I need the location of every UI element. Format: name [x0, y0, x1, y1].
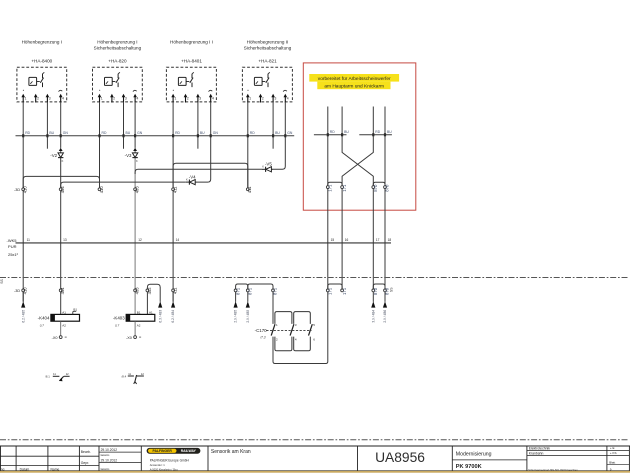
junction node wire 411 at terminal row -3D	[246, 186, 252, 193]
svg-text:K: K	[136, 159, 138, 163]
svg-text:B1: B1	[137, 310, 141, 314]
svg-text:4: 4	[62, 97, 64, 101]
svg-text:-K404: -K404	[38, 315, 50, 320]
junction node wire 410 lower row	[22, 287, 28, 295]
twisted pair marker nets 171 (lower)	[326, 284, 346, 295]
svg-text:-X0: -X0	[52, 336, 58, 340]
svg-text:A2: A2	[62, 324, 66, 328]
terminal pin 2 of +HA-8401	[184, 94, 189, 103]
pin A2 of -K404 and terminal -X0	[52, 321, 67, 340]
company address	[150, 458, 190, 471]
svg-text:/8.4: /8.4	[122, 374, 127, 378]
svg-text:A1: A1	[149, 310, 153, 314]
twisted pair marker nets 870 (upper)	[372, 182, 390, 192]
off-page arrow reference 2.9 / 4B5 at x=235.6	[234, 292, 238, 323]
wire bridge net between wire 411(box3) and 411(box4)	[173, 163, 248, 188]
sensor box +HA-8400 (dashed enclosure)	[17, 67, 67, 102]
wire K403 A1 pin from 402 junction down into coil	[146, 292, 148, 315]
svg-text:am Hauptarm und Knickarm: am Hauptarm und Knickarm	[324, 84, 384, 90]
wire 171 (net 16) with crossover	[342, 107, 373, 290]
svg-text:Sicherheitsabschaltung: Sicherheitsabschaltung	[94, 45, 142, 50]
svg-text:BU: BU	[200, 131, 205, 135]
header label box 1	[22, 39, 62, 44]
relay coil -K404	[38, 314, 80, 327]
proximity sensor symbol in +HA-8401	[178, 77, 189, 85]
svg-text:2: 2	[262, 97, 264, 101]
wire 870 (net 18)	[384, 107, 386, 290]
svg-text:Sicherheitsabschaltung: Sicherheitsabschaltung	[244, 45, 292, 50]
svg-text:K: K	[62, 159, 64, 163]
svg-text:1: 1	[175, 97, 177, 101]
svg-text:Name: Name	[51, 467, 60, 471]
svg-text:25x1²: 25x1²	[8, 252, 19, 257]
svg-text:17: 17	[376, 238, 380, 242]
dash-dot boundary line (crane / SS)	[0, 278, 628, 293]
svg-text:2: 2	[37, 97, 39, 101]
svg-text:Höhenbegrenzung II: Höhenbegrenzung II	[247, 39, 289, 44]
svg-text:Gepr.: Gepr.	[81, 461, 89, 465]
svg-text:PK 9700K: PK 9700K	[456, 464, 482, 470]
mark above pin1 of +HA-8401	[173, 90, 174, 91]
svg-text:+ KS: + KS	[610, 451, 617, 455]
svg-text:410: 410	[99, 186, 104, 194]
wire from +HA-8401 pin4 to diode V4 line joining wire 404	[61, 102, 211, 188]
svg-text:1: 1	[101, 97, 103, 101]
svg-text:-V2: -V2	[50, 153, 57, 158]
svg-text:870: 870	[373, 184, 378, 192]
off-page arrow reference 2.9 / 4B5 at x=247.8	[246, 292, 250, 323]
svg-text:-3D: -3D	[14, 289, 20, 293]
PALFINGER RAILWAY logo	[147, 448, 201, 454]
project cells	[456, 451, 492, 470]
svg-text:RD: RD	[25, 131, 30, 135]
svg-text:14: 14	[176, 238, 180, 242]
cable -WK5 PUR 25x1 line	[7, 238, 392, 257]
svg-text:Blatt: Blatt	[609, 461, 615, 465]
svg-text:+HA-8401: +HA-8401	[181, 58, 202, 63]
wire bridge net between wire 410(box1) and 410(box2)	[23, 176, 99, 188]
svg-text:6.3 / 4B3: 6.3 / 4B3	[158, 310, 162, 323]
svg-text:4: 4	[137, 97, 139, 101]
svg-text:PALFINGER: PALFINGER	[153, 449, 173, 453]
svg-text:-V4: -V4	[189, 174, 196, 179]
svg-text:4: 4	[287, 97, 289, 101]
svg-text:Sensorik am Kran: Sensorik am Kran	[211, 449, 251, 455]
svg-text:2: 2	[187, 97, 189, 101]
header label box 2	[94, 39, 142, 50]
svg-text:+HA-820: +HA-820	[108, 58, 127, 63]
relay coil -K403	[113, 314, 155, 327]
junction node wire 404 at terminal row -3D	[59, 186, 65, 194]
proximity sensor symbol in +HA-821	[254, 77, 265, 85]
wire BU stub from +HA-8401 pin3	[197, 102, 199, 149]
terminal pin 1 of +HA-8400	[21, 94, 26, 103]
junction node wire 410 at terminal row -3D	[98, 186, 104, 194]
svg-text:GN: GN	[63, 131, 69, 135]
svg-text:B1: B1	[73, 308, 77, 312]
svg-text:29.10.2012: 29.10.2012	[101, 448, 118, 452]
svg-text:SS: SS	[0, 279, 4, 284]
svg-text:6.2 / 4B5: 6.2 / 4B5	[21, 310, 25, 323]
auxiliary contact cross-ref under K404	[45, 372, 69, 381]
svg-text:A1: A1	[62, 310, 66, 314]
wire BU stub from +HA-8400 pin3	[46, 102, 48, 149]
proximity sensor symbol in +HA-820	[105, 77, 116, 85]
svg-text:RD: RD	[330, 130, 335, 134]
svg-text:2: 2	[113, 97, 115, 101]
svg-text:Höhenbegrenzung I I: Höhenbegrenzung I I	[170, 39, 213, 44]
header label box 4	[244, 39, 292, 50]
svg-text:0,7: 0,7	[115, 323, 120, 327]
terminal pin 2 of +HA-8400	[34, 94, 39, 103]
header label box 3	[170, 39, 213, 44]
svg-text:-C170: -C170	[255, 328, 268, 333]
terminal pin 3 of +HA-821	[271, 94, 276, 103]
svg-text:2.9 / 4B5: 2.9 / 4B5	[246, 310, 250, 323]
svg-text:3: 3	[199, 97, 201, 101]
svg-text:UA8956: UA8956	[375, 450, 425, 465]
wire BU stub from +HA-820 pin3	[123, 102, 125, 149]
mark above pin4 of +HA-8400	[59, 90, 63, 91]
junction node wire 402 lower row	[146, 287, 152, 295]
svg-text:lassim: lassim	[101, 453, 110, 457]
junction node wire 403 at terminal row -3D	[134, 186, 140, 194]
terminal pin 1 of +HA-820	[98, 94, 103, 103]
wire 402 bridge from K403 A1 to reference arrow	[147, 284, 162, 322]
diode -V3	[125, 148, 138, 163]
C170 pin numbers	[276, 323, 315, 341]
bottom page-edge strip	[0, 471, 630, 473]
svg-text:RD: RD	[250, 131, 255, 135]
cable colour-code segments in red frame	[314, 130, 392, 136]
svg-text:171: 171	[328, 184, 333, 192]
svg-text:411: 411	[173, 186, 178, 193]
sheet cells	[609, 446, 616, 472]
yellow highlighted note text	[309, 74, 399, 90]
twisted pair marker nets 870 (lower)	[372, 284, 390, 295]
mark above pin4 of +HA-821	[283, 90, 287, 91]
terminal pin 4 of +HA-821	[284, 94, 289, 103]
svg-text:GN: GN	[137, 131, 143, 135]
diode -V2	[50, 148, 63, 163]
contact symbol in +HA-8401	[190, 72, 194, 87]
diode -V4	[186, 174, 197, 184]
svg-text:Bearb.: Bearb.	[81, 450, 91, 454]
junction node wire 410 at terminal row -3D	[22, 186, 28, 194]
revision table labels	[1, 467, 60, 471]
twisted pair marker nets 171 (upper)	[326, 182, 346, 192]
approval cells	[81, 448, 117, 471]
svg-text:GN: GN	[287, 131, 293, 135]
mark above pin4 of +HA-820	[133, 90, 137, 91]
svg-text:K: K	[262, 165, 264, 169]
svg-text:+HA-8400: +HA-8400	[31, 58, 52, 63]
svg-text:29.10.2012: 29.10.2012	[101, 459, 118, 463]
terminal pin 4 of +HA-820	[133, 94, 138, 103]
title block grid	[0, 446, 630, 471]
cable core numbers on -WK5	[27, 238, 392, 242]
off-page arrow reference 6.2 / 4B5 at x=23.2	[21, 292, 25, 323]
mark above pin1 of +HA-821	[247, 90, 248, 91]
mark above pin1 of +HA-8400	[23, 90, 24, 91]
sensor box +HA-8401 (dashed enclosure)	[166, 67, 216, 102]
svg-text:13: 13	[63, 238, 67, 242]
svg-text:-V3: -V3	[125, 153, 132, 158]
svg-text:403: 403	[135, 287, 140, 295]
svg-text:RD: RD	[375, 130, 380, 134]
terminal pin 3 of +HA-8400	[46, 94, 51, 103]
svg-text:GN: GN	[213, 131, 219, 135]
junction node wire 411 at terminal row -3D	[172, 186, 178, 193]
svg-text:2.9 / 4B6: 2.9 / 4B6	[383, 310, 387, 323]
svg-text:PALFINGER Europe GmbH: PALFINGER Europe GmbH	[150, 458, 190, 462]
wire 870 (net 17) with crossover	[342, 107, 373, 290]
svg-text:BU: BU	[126, 131, 131, 135]
junction node wire 404 lower row	[59, 287, 65, 295]
terminal pin 4 of +HA-8400	[59, 94, 64, 103]
svg-text:+HA-821: +HA-821	[258, 58, 277, 63]
svg-text:BU: BU	[275, 131, 280, 135]
junction node wire 411 lower row	[172, 287, 178, 294]
wire 404 (net 13) from +HA-8400 pin4 through diode V2 down to relay K404	[60, 102, 62, 315]
svg-text:4: 4	[212, 97, 214, 101]
wire from +HA-821 pin4 to diode V5 line joining wire 403	[135, 102, 285, 174]
svg-text:171: 171	[342, 184, 347, 192]
off-page arrow reference 6.2 / 4B4 at x=173.1	[171, 292, 175, 323]
svg-text:Höhenbegrenzung I: Höhenbegrenzung I	[22, 39, 62, 44]
svg-text:3: 3	[49, 97, 51, 101]
sensor box +HA-821 (dashed enclosure)	[242, 67, 292, 102]
svg-text:16: 16	[345, 238, 349, 242]
wire 410 from +HA-820 pin1 to junction	[99, 102, 101, 188]
pin B1 stub of -K404	[73, 308, 78, 315]
svg-text:-K403: -K403	[113, 315, 125, 320]
svg-text:+ E: + E	[610, 446, 615, 450]
red highlight frame (vorbereitet fuer Arbeitsscheinwerfer)	[303, 63, 416, 210]
svg-text:K: K	[186, 178, 188, 182]
svg-text:RD: RD	[102, 131, 107, 135]
terminal pin 3 of +HA-8401	[196, 94, 201, 103]
terminal pin 2 of +HA-821	[259, 94, 264, 103]
terminal pin 4 of +HA-8401	[209, 94, 214, 103]
off-page arrow reference 3.9 / 4B4 at x=373.3	[371, 292, 375, 323]
wire 403 (net 12) from +HA-820 pin4 through diode V3 down to relay K403	[134, 102, 136, 315]
svg-text:12: 12	[138, 238, 142, 242]
svg-text:870: 870	[385, 184, 390, 192]
cable colour-code line (RD/BU/GN markers)	[16, 135, 295, 137]
svg-text:403: 403	[135, 186, 140, 194]
terminal pin 3 of +HA-820	[122, 94, 127, 103]
svg-text:PUR: PUR	[8, 244, 17, 249]
svg-text:lassim: lassim	[101, 467, 110, 471]
svg-text:/8.1: /8.1	[45, 374, 50, 378]
terminal pin 2 of +HA-820	[110, 94, 115, 103]
contact symbol in +HA-820	[116, 72, 120, 87]
svg-text:Anwender: 1: Anwender: 1	[150, 463, 166, 467]
svg-text:Elektrotechnik: Elektrotechnik	[529, 446, 551, 450]
junction node wire 403 lower row	[134, 287, 140, 295]
pin A2 of -K403 and terminal -X0	[126, 321, 141, 340]
auxiliary contact cross-ref under K403	[122, 372, 145, 384]
svg-text:15: 15	[331, 238, 335, 242]
wire loop from C170 to net 171	[273, 292, 328, 364]
svg-text:RAILWAY: RAILWAY	[181, 449, 197, 453]
svg-text:-WK5: -WK5	[7, 238, 18, 243]
terminal pin 1 of +HA-8401	[171, 94, 176, 103]
svg-text:BU: BU	[344, 130, 349, 134]
twisted pair marker nets 871	[234, 284, 278, 295]
dash-dot frame line above title block	[0, 439, 628, 441]
diode -V5	[262, 162, 273, 172]
svg-text:3: 3	[275, 97, 277, 101]
svg-text:11: 11	[27, 238, 31, 242]
wire 411 (net 14) from +HA-8401 pin1 down	[172, 102, 174, 302]
svg-text:Modernisierung: Modernisierung	[456, 451, 492, 457]
svg-text:1: 1	[25, 97, 27, 101]
svg-text:Höhenbegrenzung I: Höhenbegrenzung I	[97, 39, 137, 44]
svg-text:/7.3: /7.3	[259, 335, 266, 339]
svg-text:Kranbahn: Kranbahn	[529, 451, 544, 455]
svg-text:-3D: -3D	[14, 188, 20, 192]
svg-text:-V5: -V5	[265, 162, 272, 167]
wire BU stub from +HA-821 pin3	[272, 102, 274, 149]
sensor box +HA-820 (dashed enclosure)	[93, 67, 143, 102]
svg-text:vorbereitet für Arbeitsscheinw: vorbereitet für Arbeitsscheinwerfer	[318, 76, 391, 82]
svg-text:6.2 / 4B4: 6.2 / 4B4	[171, 310, 175, 323]
svg-text:411: 411	[247, 186, 252, 193]
wire 410 (net 11) from +HA-8400 pin1 down to arrow reference	[22, 102, 24, 302]
off-page arrow reference 2.9 / 4B6 at x=385.0	[383, 292, 387, 323]
svg-text:404: 404	[60, 287, 65, 295]
terminal pin 1 of +HA-821	[246, 94, 251, 103]
svg-text:410: 410	[23, 186, 28, 194]
connector/contact block C170	[255, 312, 313, 351]
svg-text:404: 404	[60, 186, 65, 194]
svg-text:SS: SS	[389, 287, 393, 292]
svg-text:0,7: 0,7	[40, 323, 45, 327]
colour labels RD BU GN	[22, 131, 293, 137]
proximity sensor symbol in +HA-8400	[29, 77, 40, 85]
department cells	[528, 446, 578, 472]
svg-text:2.9 / 4B5: 2.9 / 4B5	[234, 310, 238, 323]
contact symbol in +HA-821	[266, 72, 270, 87]
wire 171 (net 15) scheinwerfer	[327, 107, 329, 290]
mark above pin4 of +HA-8401	[209, 90, 213, 91]
svg-text:18: 18	[388, 238, 392, 242]
wire 871 down to C170 contact chain	[272, 292, 274, 361]
svg-text:Datum: Datum	[20, 467, 30, 471]
svg-text:BU: BU	[49, 131, 54, 135]
svg-text:RD: RD	[175, 131, 180, 135]
svg-text:3.9 / 4B4: 3.9 / 4B4	[371, 310, 375, 323]
svg-text:BU: BU	[387, 130, 392, 134]
contact symbol in +HA-8400	[40, 72, 44, 87]
svg-text:-X0: -X0	[126, 336, 132, 340]
mark above pin1 of +HA-820	[99, 90, 100, 91]
svg-text:A2: A2	[137, 324, 141, 328]
wire 411 from +HA-821 pin1 to junction	[247, 102, 249, 188]
svg-text:3: 3	[125, 97, 127, 101]
svg-text:1: 1	[249, 97, 251, 101]
svg-text:171: 171	[342, 287, 347, 295]
